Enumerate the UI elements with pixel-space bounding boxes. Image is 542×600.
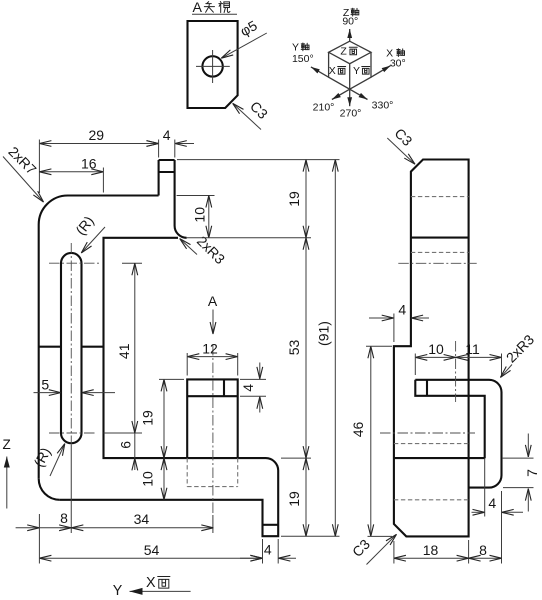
A-view plate outline xyxy=(188,21,238,108)
svg-text:10: 10 xyxy=(428,341,444,357)
dimension 4 (front plate offset) xyxy=(369,302,429,342)
svg-text:X: X xyxy=(146,575,156,591)
slot outline xyxy=(61,253,82,443)
Z axis arrow xyxy=(3,437,11,509)
svg-text:53: 53 xyxy=(286,340,302,356)
dimension 19 (bottom right) xyxy=(286,458,306,536)
svg-text:8: 8 xyxy=(60,510,68,526)
cube axis arrow X 30 xyxy=(371,66,391,78)
leader phi5 xyxy=(221,17,266,58)
dimension 54 xyxy=(39,542,262,558)
hook outline xyxy=(415,380,501,488)
extension lines top xyxy=(39,140,174,194)
svg-text:10: 10 xyxy=(140,471,156,487)
boss strip divider xyxy=(223,379,225,396)
centerlines right view xyxy=(380,263,477,433)
svg-text:19: 19 xyxy=(286,191,302,207)
dimension 5 (slot width) xyxy=(34,376,116,392)
view A arrow xyxy=(208,293,218,334)
hook strip bottom + inner edge xyxy=(427,396,485,458)
leader (R) slot bottom xyxy=(30,444,64,476)
svg-text:5: 5 xyxy=(41,376,49,392)
svg-text:7: 7 xyxy=(524,469,540,477)
arm bottom edge (side) xyxy=(411,237,469,239)
dimension 11 (hook) xyxy=(456,341,502,377)
right side extension lines xyxy=(177,160,340,537)
dimension 29 xyxy=(39,127,158,143)
dimension 4 (top tab) xyxy=(141,127,194,144)
svg-text:Z: Z xyxy=(3,437,11,452)
leader C3 (A-view chamfer) xyxy=(233,98,271,130)
svg-text:54: 54 xyxy=(144,542,160,558)
bottom tab chamfer line xyxy=(263,524,279,526)
svg-text:4: 4 xyxy=(398,302,406,318)
A-view hole phi5 xyxy=(202,56,222,76)
svg-text:A: A xyxy=(208,293,218,309)
svg-text:Y: Y xyxy=(113,583,123,599)
svg-text:Y: Y xyxy=(353,65,360,77)
hook strip left cap xyxy=(415,380,427,396)
svg-text:4: 4 xyxy=(264,541,272,557)
dimension 8 (bottom) xyxy=(16,510,72,528)
dimension 10 (hook) xyxy=(415,341,455,375)
tab chamfer line xyxy=(159,171,175,173)
leader C3 (bottom) xyxy=(349,534,397,564)
svg-text:Y: Y xyxy=(292,42,299,54)
top edge + R7 fillet xyxy=(39,196,159,225)
left edge xyxy=(38,225,40,479)
svg-text:12: 12 xyxy=(202,340,218,356)
X-plane direction arrow with Y label xyxy=(113,575,191,599)
hidden lines right view xyxy=(394,197,469,500)
cube axis arrow Y 150 xyxy=(311,67,329,77)
tab right edge + R3 fillet xyxy=(175,160,187,238)
dimension 41 xyxy=(116,263,135,433)
right view outline xyxy=(394,160,469,537)
slot centerlines xyxy=(49,243,99,445)
svg-text:210°: 210° xyxy=(313,101,335,113)
bottom extension lines xyxy=(39,514,278,564)
dimension 46 xyxy=(350,346,392,536)
leader 2xR3 (tab fillet) xyxy=(180,233,229,268)
bottom-left fillet xyxy=(39,479,60,500)
svg-text:4: 4 xyxy=(240,384,256,392)
dimension 8 (right view) xyxy=(469,542,502,558)
dimension 12 (boss) xyxy=(187,340,238,375)
svg-text:19: 19 xyxy=(139,410,155,426)
boss centerline xyxy=(212,345,214,515)
dimension 4 (hook leg) xyxy=(472,458,524,563)
svg-text:6: 6 xyxy=(118,441,134,449)
svg-text:10: 10 xyxy=(192,207,208,223)
dimension 6 xyxy=(118,433,135,470)
dimension 19 (top right) xyxy=(286,160,306,238)
boss hidden edges xyxy=(187,458,238,487)
centerline extensions xyxy=(71,263,213,533)
isometric axis cube xyxy=(329,41,371,89)
dimension 18 xyxy=(394,540,469,564)
tab top xyxy=(159,159,175,161)
cube arrow 330 xyxy=(350,89,368,99)
svg-text:29: 29 xyxy=(89,127,105,143)
dimension 16 xyxy=(39,156,103,172)
svg-text:X: X xyxy=(329,65,336,77)
svg-text:4: 4 xyxy=(488,495,496,511)
svg-text:150°: 150° xyxy=(292,53,314,65)
cube axis arrow Z 90 xyxy=(349,29,351,41)
svg-text:41: 41 xyxy=(116,343,132,359)
dimension 4 (bottom tab) xyxy=(240,541,296,558)
A-view title "A矢視" xyxy=(192,0,237,16)
tab left edge xyxy=(158,160,160,196)
bottom arm top edge (side) xyxy=(394,457,485,459)
svg-text:4: 4 xyxy=(163,127,171,143)
dimension 7 xyxy=(502,434,540,512)
svg-text:30°: 30° xyxy=(390,58,406,70)
svg-text:330°: 330° xyxy=(372,99,394,111)
leader (R) slot top xyxy=(72,213,105,253)
dimension 4 (boss strip) xyxy=(240,363,266,413)
boss chamfer strip line xyxy=(187,395,238,397)
cube arrow 210 xyxy=(332,89,350,99)
svg-text:90°: 90° xyxy=(342,16,358,28)
svg-text:270°: 270° xyxy=(340,108,362,120)
column step lines xyxy=(39,346,104,348)
svg-text:Z: Z xyxy=(340,46,347,58)
dimension 34 xyxy=(71,511,213,528)
cube labels xyxy=(292,7,406,120)
svg-text:(91): (91) xyxy=(316,321,332,346)
A-view hole centerlines xyxy=(196,50,230,83)
dimension 19 (boss height) xyxy=(139,379,184,458)
bottom arm, right tab and inner C edges xyxy=(60,238,279,536)
svg-text:16: 16 xyxy=(81,156,97,172)
dimension 10 (arm, right of tab) xyxy=(177,196,215,238)
svg-text:8: 8 xyxy=(479,542,487,558)
svg-text:34: 34 xyxy=(134,511,150,527)
hook strip divider xyxy=(426,380,428,396)
leader 2xR7 xyxy=(3,143,44,202)
svg-text:19: 19 xyxy=(286,491,302,507)
dimension (91) xyxy=(316,160,336,537)
dimension 53 xyxy=(286,238,306,458)
svg-text:11: 11 xyxy=(465,341,480,357)
svg-text:18: 18 xyxy=(423,542,439,558)
leader 2xR3 (hook fillet) xyxy=(500,331,537,377)
svg-text:46: 46 xyxy=(350,422,366,438)
boss outline xyxy=(187,379,238,458)
leader C3 (top) xyxy=(387,125,415,164)
dimension 10 (arm thickness) xyxy=(140,458,165,500)
cube arrow 270 xyxy=(349,89,351,106)
